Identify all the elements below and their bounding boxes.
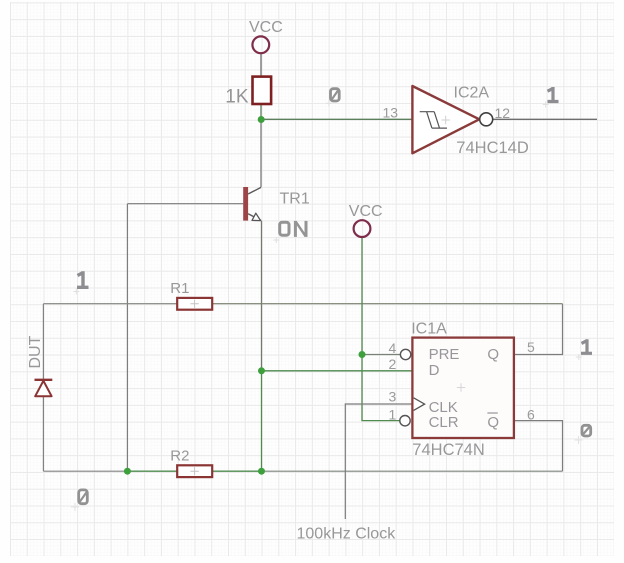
- wire: bottom rail R2 segment (green): [127, 470, 261, 472]
- label IC2A: [454, 84, 490, 101]
- svg-text:1: 1: [389, 406, 397, 422]
- svg-text:3: 3: [389, 389, 397, 405]
- wire: bottom rail right to vertical: [262, 470, 563, 472]
- diode DUT: [27, 335, 52, 396]
- pin number 12: [495, 105, 511, 121]
- wire: VCC2 down to CLR: [362, 237, 400, 421]
- pin label Qbar: [487, 413, 499, 431]
- label 74HC74N: [412, 441, 484, 459]
- state label 0 near 1K: [331, 89, 340, 101]
- op-amp U1: Schmitt inverter IC2A triangle: [412, 86, 479, 153]
- state label 1 top-left: [77, 271, 89, 287]
- svg-text:IC1A: IC1A: [411, 321, 447, 338]
- pin number 6: [527, 407, 535, 423]
- resistor R1: [170, 280, 212, 309]
- svg-text:DUT: DUT: [27, 335, 44, 368]
- svg-text:R1: R1: [170, 280, 189, 297]
- wire: 1K resistor to node A: [260, 104, 262, 119]
- pin number 13: [383, 104, 399, 120]
- wire: transistor base to left: [127, 203, 243, 205]
- pin number 4: [389, 340, 397, 356]
- svg-text:CLR: CLR: [429, 414, 459, 431]
- svg-text:1K: 1K: [225, 86, 249, 107]
- wire: node A down to transistor collector: [260, 119, 262, 187]
- junction VCC2-PRE: [359, 351, 366, 358]
- junction base-bottom rail: [124, 468, 131, 475]
- svg-text:R2: R2: [170, 448, 189, 465]
- wire: D input from emitter node: [262, 370, 413, 372]
- wire: net 1 top rail from left rail to R1: [43, 303, 177, 305]
- wire: inverter pin 12 output: [492, 118, 597, 120]
- label 74HC14D: [456, 139, 529, 157]
- label 100kHz Clock: [297, 525, 397, 542]
- CLK edge triangle: [414, 398, 425, 411]
- label TR1: [280, 190, 310, 207]
- svg-text:13: 13: [383, 104, 399, 120]
- power VCC top: [249, 19, 283, 53]
- svg-text:Q: Q: [487, 414, 499, 431]
- svg-text:VCC: VCC: [349, 203, 383, 220]
- transistor TR1: [243, 187, 261, 221]
- pin number 2: [389, 356, 397, 372]
- wire: base vertical down to bottom rail: [126, 204, 128, 472]
- flip-flop IC1A box 74HC74N: [412, 338, 514, 438]
- state label 1 at inverter output: [548, 87, 559, 102]
- wire: CLK pin 3 to clock stub: [345, 404, 412, 519]
- wire: right vertical up to Qbar pin 6: [514, 421, 563, 472]
- svg-text:74HC14D: 74HC14D: [456, 139, 529, 157]
- state label 0 at Qbar output: [575, 425, 591, 444]
- wire: VCC stub to 1K resistor: [260, 53, 262, 76]
- svg-text:4: 4: [389, 340, 397, 356]
- resistor 1K: [225, 77, 271, 108]
- svg-text:2: 2: [389, 356, 397, 372]
- pin number 1: [389, 406, 397, 422]
- wire: emitter vertical to bottom rail (green): [261, 371, 263, 471]
- state label 0 bottom-left: [71, 490, 87, 511]
- svg-text:12: 12: [495, 105, 511, 121]
- svg-text:VCC: VCC: [249, 19, 283, 36]
- svg-text:IC2A: IC2A: [454, 84, 490, 101]
- CLR input bubble pin 1: [400, 416, 410, 426]
- pin number 3: [389, 389, 397, 405]
- pin label CLK: [429, 399, 458, 416]
- svg-text:6: 6: [527, 407, 535, 423]
- wire: bottom rail left to R2: [43, 470, 127, 472]
- wire: net 1 from R1 to right vertical: [212, 303, 562, 305]
- wire: left rail with DUT: [42, 304, 44, 472]
- svg-text:D: D: [429, 362, 440, 379]
- origin marks for state labels: [73, 100, 582, 360]
- inverter output bubble pin 12: [480, 113, 493, 126]
- junction node A: [258, 116, 265, 123]
- label IC1A: [411, 321, 447, 338]
- pin number 5: [527, 339, 535, 355]
- pin label D: [429, 362, 440, 379]
- svg-text:100kHz Clock: 100kHz Clock: [297, 525, 397, 542]
- svg-text:5: 5: [527, 339, 535, 355]
- svg-text:TR1: TR1: [280, 190, 310, 207]
- svg-text:PRE: PRE: [429, 346, 460, 363]
- wire: emitter vertical down: [261, 221, 263, 371]
- pin label PRE: [429, 346, 460, 363]
- power VCC middle: [349, 203, 383, 237]
- PRE input bubble pin 4: [400, 349, 410, 359]
- pin label Q: [487, 346, 499, 363]
- pin label CLR: [429, 414, 459, 431]
- svg-text:74HC74N: 74HC74N: [412, 441, 484, 459]
- junction emitter-bottom rail: [258, 468, 265, 475]
- state label ON: [280, 221, 306, 237]
- state label 1 at Q output: [581, 339, 592, 353]
- wire: node A to inverter pin 13: [261, 118, 412, 120]
- resistor R2: [170, 448, 212, 477]
- svg-text:Q: Q: [487, 346, 499, 363]
- wire: right vertical down to Q pin 5: [514, 304, 563, 355]
- junction emitter-D: [258, 367, 265, 374]
- wire: VCC2 node to PRE pin 4: [362, 354, 400, 356]
